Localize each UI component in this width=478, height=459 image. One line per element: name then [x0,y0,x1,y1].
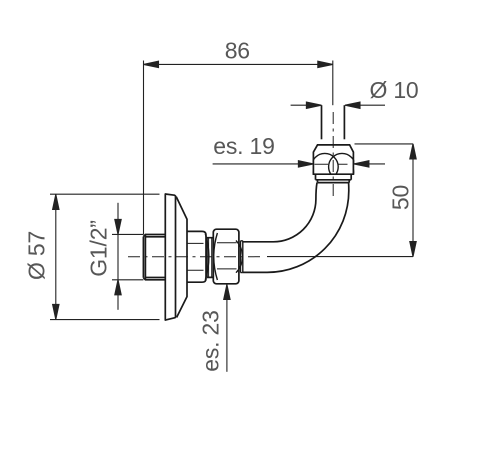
thread G12 outline [143,235,165,280]
hex nut es23 left chamfer arc [214,233,218,280]
dimension 50 top extension line [355,143,414,145]
dimension 50 line [412,144,414,257]
left cone nut outline [187,231,206,282]
dimension es19 leader line left [213,163,314,165]
dimension 50 bottom extension line [267,256,413,258]
dimension D10 left arrow [306,102,321,108]
dimension D57 line [55,194,57,319]
dimension D10 right line [345,104,385,106]
tube elbow outer edge [243,183,349,273]
left cone nut facet lines [187,243,204,270]
hex nut es23 facet lines [217,243,237,269]
svg-text:50: 50 [388,185,414,210]
dimension 86 left extension line [143,61,145,235]
centerline crosshair of top hex [315,163,348,165]
hex nut es23 outline [213,229,239,284]
centerline vertical of pipe [128,112,333,257]
pipe D10 outline [321,105,323,139]
dimension 86 right extension line [332,61,334,106]
dimension G12 top extension line [112,233,143,235]
left cone nut chamfer arc [205,234,209,280]
svg-text:G1/2”: G1/2” [85,220,111,277]
dimension D10 left line [291,104,322,106]
thread G12 minor lines [145,235,165,280]
tube elbow inner edge [243,183,317,242]
svg-text:es. 23: es. 23 [197,310,223,371]
dimension es19 right arrow [354,161,369,167]
dimension G12 bottom extension line [112,279,143,281]
dimension 86 left arrow [144,61,159,67]
flange cone outline [176,197,187,318]
dimension D57 bottom arrow [53,304,59,319]
svg-text:86: 86 [225,38,250,64]
collar between nuts [207,238,213,278]
dimension G12 line [117,203,119,310]
dimension 86 line [144,63,333,65]
dimension D57 bottom extension line [50,319,160,321]
dimension es23 arrow [224,285,230,300]
hex nut es19 outline [313,145,353,174]
dimension G12 bottom arrow [115,280,121,295]
dimension D57 top extension line [50,193,160,195]
dimension es19 right line [354,163,385,165]
dimension 50 top arrow [410,144,416,159]
svg-text:Ø 10: Ø 10 [369,77,418,103]
dimension es23 leader line [226,285,228,372]
dimension D10 right arrow [345,102,360,108]
dimension 50 bottom arrow [410,242,416,257]
svg-text:es. 19: es. 19 [213,133,274,159]
right collar [241,241,243,273]
hex nut es23 right chamfer arc [236,241,242,273]
centerline horizontal of body [128,256,263,258]
svg-text:Ø 57: Ø 57 [24,231,50,280]
dimension 86 right arrow [318,61,333,67]
dimension D57 top arrow [53,194,59,209]
hex nut es19 collar [316,174,352,182]
flange plate outline [165,194,175,320]
dimension G12 top arrow [115,219,121,234]
dimension es19 left arrow [298,161,313,167]
